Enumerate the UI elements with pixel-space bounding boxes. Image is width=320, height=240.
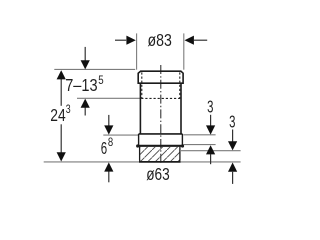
- svg-text:5: 5: [98, 74, 103, 87]
- svg-text:6: 6: [101, 138, 107, 158]
- svg-text:24: 24: [50, 105, 65, 125]
- svg-text:ø83: ø83: [148, 30, 172, 50]
- svg-text:ø63: ø63: [146, 164, 170, 184]
- svg-text:3: 3: [229, 111, 235, 131]
- svg-text:8: 8: [108, 136, 113, 149]
- svg-text:7–13: 7–13: [65, 75, 97, 95]
- svg-text:3: 3: [66, 103, 71, 116]
- svg-text:3: 3: [207, 96, 213, 116]
